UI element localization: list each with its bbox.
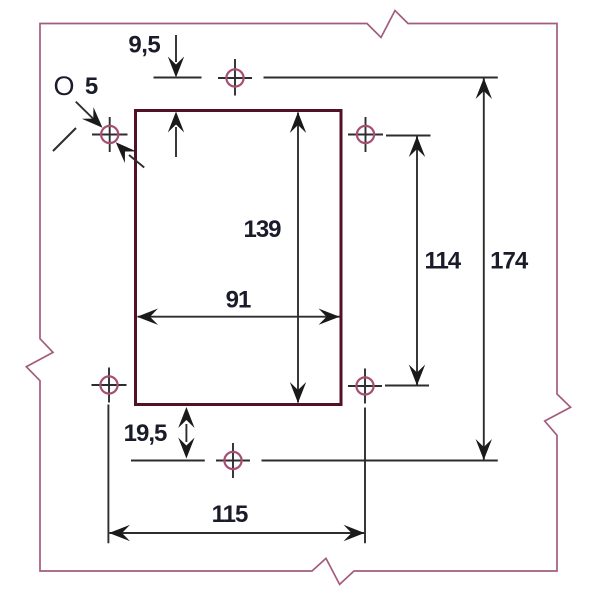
- 9,5 dim down arrow: [168, 35, 184, 78]
- bottom dimension line: [131, 460, 205, 462]
- svg-text:19,5: 19,5: [124, 420, 167, 447]
- 91 dimension line: [137, 309, 340, 325]
- svg-text:139: 139: [243, 216, 281, 243]
- 139 dimension line: [290, 112, 306, 403]
- hole top-center: [218, 59, 252, 96]
- 19,5 double arrow: [178, 407, 194, 459]
- svg-text:114: 114: [424, 248, 461, 275]
- 115 dimension line: [109, 525, 365, 541]
- diameter leader arrow lower: [110, 137, 144, 168]
- 114 bottom connector line: [385, 385, 429, 387]
- svg-text:91: 91: [226, 287, 251, 314]
- svg-text:174: 174: [490, 248, 529, 275]
- hole bottom-right: [348, 369, 382, 404]
- 114 dimension line: [409, 136, 425, 386]
- top dimension line: [154, 77, 202, 79]
- 9,5 dim up arrow: [168, 112, 184, 158]
- svg-text:9,5: 9,5: [128, 31, 160, 58]
- hole top-left: [92, 117, 128, 152]
- diameter leader arrow upper: [76, 102, 108, 134]
- svg-text:O: O: [53, 71, 74, 101]
- hole bottom-center: [216, 443, 250, 478]
- extension line right: [364, 408, 366, 544]
- diameter slash mark: [53, 128, 76, 151]
- hole bottom-left: [92, 368, 127, 403]
- svg-text:5: 5: [85, 73, 98, 100]
- 114 top connector line: [386, 135, 431, 137]
- svg-text:115: 115: [212, 501, 248, 528]
- cutout rectangle: [136, 111, 342, 405]
- hole top-right: [348, 117, 383, 152]
- extension line left: [107, 405, 109, 544]
- 174 dimension line: [476, 78, 492, 460]
